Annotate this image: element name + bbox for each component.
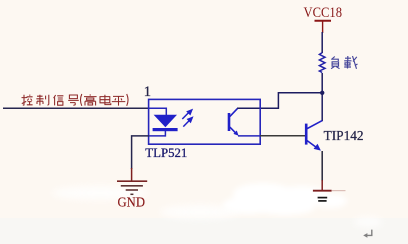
号	[68, 95, 79, 105]
ground GND symbol	[117, 168, 147, 194]
wire resistor to junction and down to Q collector	[321, 73, 323, 121]
power net VCC18 label	[304, 4, 343, 21]
高	[84, 94, 97, 105]
optocoupler U1 TLP521 box	[149, 99, 261, 144]
平	[112, 96, 126, 105]
paragraph return mark	[363, 230, 372, 238]
resistor R load	[319, 53, 325, 73]
信	[54, 95, 64, 105]
wire VCC to resistor	[321, 32, 323, 53]
(	[81, 94, 82, 106]
LED of optocoupler	[153, 115, 178, 137]
value label 负载 (load)	[331, 56, 357, 69]
wire input net to LED anode	[3, 107, 149, 109]
phototransistor of optocoupler	[229, 109, 239, 136]
LED light arrows	[182, 110, 192, 127]
svg-text:VCC18: VCC18	[304, 4, 343, 21]
ground symbol at Q1 emitter	[313, 191, 346, 201]
svg-text:TLP521: TLP521	[145, 145, 187, 160]
svg-text:1: 1	[144, 84, 151, 100]
wire junction to optocoupler collector	[237, 93, 322, 108]
载	[344, 56, 357, 69]
制	[36, 95, 48, 106]
wire Q1 emitter to ground	[321, 151, 323, 181]
控	[22, 95, 33, 106]
transistor Q1 TIP142	[306, 121, 322, 151]
)	[127, 94, 128, 106]
电	[100, 95, 111, 105]
wire phototransistor emitter to Q1 base	[238, 135, 260, 137]
负	[331, 57, 339, 69]
svg-text:GND: GND	[118, 196, 146, 211]
net label 控制信号(高电平) control signal (high level)	[22, 94, 129, 106]
power symbol VCC bar	[315, 21, 332, 33]
wire inside box to LED	[149, 108, 167, 115]
svg-text:TIP142: TIP142	[324, 128, 364, 143]
wire LED cathode out of box	[149, 135, 166, 137]
node junction dot	[320, 91, 324, 95]
